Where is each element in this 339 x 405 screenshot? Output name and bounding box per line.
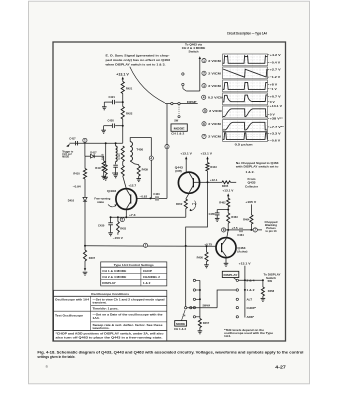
svg-text:−1 V: −1 V — [270, 87, 277, 91]
svg-text:(Active): (Active) — [237, 249, 247, 253]
svg-text:2 V/CM: 2 V/CM — [209, 109, 222, 113]
svg-text:SW464: SW464 — [203, 305, 211, 308]
svg-text:+8 V: +8 V — [270, 82, 278, 86]
svg-text:2 V/CM: 2 V/CM — [208, 122, 221, 126]
svg-text:Switch: Switch — [188, 49, 198, 53]
svg-text:+13.1 V: +13.1 V — [222, 189, 233, 193]
collector rail with C464 — [222, 228, 226, 232]
wire: trigger row — [75, 142, 123, 144]
transistor Q463 — [216, 238, 236, 258]
svg-text:DISPLAY: DISPLAY — [224, 273, 238, 277]
waveform 2 (sawtooth) — [223, 67, 268, 79]
ground — [103, 171, 105, 176]
svg-text:−1.2 V: −1.2 V — [270, 75, 281, 79]
svg-text:0 V: 0 V — [270, 112, 275, 116]
value label +2.7 V — [268, 68, 270, 70]
wire — [122, 94, 124, 107]
schematic frame — [53, 42, 286, 341]
ref 1 — [202, 59, 206, 63]
svg-text:+38 V**: +38 V** — [270, 117, 284, 121]
table: Type 1A4 Control Settings — [101, 262, 167, 286]
resistor R462 — [227, 198, 230, 207]
svg-text:3: 3 — [203, 84, 205, 88]
terminal circles — [182, 73, 184, 75]
value label +13.1 V — [268, 105, 270, 107]
wire DISP — [165, 103, 198, 105]
waveform 4 (spike + decay) — [223, 93, 268, 105]
node circle 1 — [83, 138, 87, 142]
resistor R424 — [122, 162, 124, 166]
svg-text:1: 1 — [84, 139, 86, 143]
value label +0.7 V — [268, 95, 270, 97]
ground — [105, 175, 107, 178]
resistor R458 — [262, 279, 264, 281]
value label 0 V — [268, 101, 270, 103]
svg-text:+4.2 V: +4.2 V — [270, 53, 281, 57]
svg-text:6: 6 — [203, 122, 205, 126]
left contact column + bus — [193, 279, 195, 281]
svg-text:ALT: ALT — [247, 297, 253, 301]
svg-text:with DISPLAY switch set to: with DISPLAY switch set to — [235, 165, 279, 169]
svg-text:4: 4 — [150, 156, 152, 160]
resistor R407 — [83, 250, 86, 261]
resistor R422 — [121, 107, 124, 120]
svg-text:2 V/CM: 2 V/CM — [208, 84, 221, 88]
svg-text:R422: R422 — [126, 112, 133, 116]
svg-text:+105 V: +105 V — [245, 200, 256, 204]
svg-text:+2.7 V: +2.7 V — [270, 67, 281, 71]
svg-text:+0.7 V: +0.7 V — [270, 94, 281, 98]
svg-text:CHOP*: CHOP* — [247, 306, 257, 310]
svg-text:2 V/CM: 2 V/CM — [208, 59, 221, 63]
svg-text:2 V/CM: 2 V/CM — [208, 135, 221, 139]
resistor R418 (left leg) — [105, 143, 107, 165]
svg-text:0.2 V/CM: 0.2 V/CM — [208, 96, 224, 100]
wire 2&4 row — [239, 279, 263, 281]
value label +8 V — [268, 83, 270, 85]
svg-text:Oscilloscope Conditions: Oscilloscope Conditions — [91, 292, 129, 296]
node circle 4 — [149, 156, 153, 160]
svg-text:T450: T450 — [136, 147, 143, 151]
svg-text:Circuit Description — Type 1A4: Circuit Description — Type 1A4 — [227, 31, 268, 35]
svg-text:1 & 2.: 1 & 2. — [246, 170, 255, 174]
waveform 7 (narrow pulses) — [223, 132, 268, 141]
svg-text:DISP: DISP — [187, 100, 197, 104]
svg-text:when DISPLAY switch is set to: when DISPLAY switch is set to 1 & 3. — [104, 62, 165, 66]
waveform 6 (RC square) — [223, 120, 268, 132]
svg-text:oscilloscope used with the Typ: oscilloscope used with the Type — [224, 331, 274, 335]
value label 0 V — [268, 113, 270, 115]
value label +3.3 V — [268, 132, 270, 134]
DISPLAY box — [222, 271, 239, 277]
value label −1.2 V — [268, 76, 270, 78]
waveform 1 (chop pulses) — [223, 54, 268, 66]
ground w/ arrow — [84, 268, 86, 271]
transformer T450 loop — [130, 138, 151, 199]
page sheet — [29, 1, 310, 384]
value label −0.6 V — [268, 139, 270, 141]
svg-text:Switch: Switch — [266, 276, 276, 280]
resistor R457 — [198, 319, 201, 328]
resistor R420 (rotated label) — [121, 146, 124, 162]
svg-text:Fig. 4-18. Schematic diagram: Fig. 4-18. Schematic diagram of Q433, Q4… — [37, 351, 303, 355]
resistor R410 — [83, 169, 86, 180]
svg-text:MODE: MODE — [174, 126, 185, 130]
svg-text:+13.1 V: +13.1 V — [270, 104, 282, 108]
dashed link to MODE switch — [178, 105, 180, 114]
svg-text:2 V/CM: 2 V/CM — [208, 72, 221, 76]
value label −1 V — [268, 88, 270, 90]
ground — [103, 126, 105, 131]
waveform 3 (pulses) — [223, 80, 268, 92]
svg-text:4-27: 4-27 — [275, 365, 286, 370]
value label +38 V** — [268, 118, 270, 120]
right contact column — [236, 289, 238, 291]
resistor R421 — [121, 82, 124, 94]
node circle 7 — [253, 228, 257, 232]
svg-text:R421: R421 — [126, 87, 133, 91]
svg-text:+7.7 V**: +7.7 V** — [270, 125, 285, 129]
wire from base node down to DISPLAY switch — [186, 182, 208, 307]
svg-text:+13.1 V: +13.1 V — [180, 152, 191, 156]
wire to CH2&4 MODE switch (arrow up) — [199, 56, 201, 59]
resistor R417 — [103, 156, 105, 161]
ref 4 — [202, 95, 206, 99]
ref 6 — [202, 122, 206, 126]
svg-text:SW: SW — [268, 280, 273, 283]
svg-text:(Off): (Off) — [175, 169, 182, 173]
svg-text:3: 3 — [166, 145, 168, 149]
value label +4.2 V — [268, 54, 270, 56]
node circle 3 — [165, 145, 169, 149]
capacitor C419 — [113, 164, 118, 166]
ref 5 — [203, 109, 207, 113]
Q463 emitter ground — [225, 258, 227, 264]
svg-text:2: 2 — [203, 72, 205, 76]
node circle 5 — [120, 217, 124, 221]
svg-text:7: 7 — [203, 135, 205, 139]
svg-text:1 & 2: 1 & 2 — [247, 288, 255, 292]
svg-text:4: 4 — [203, 96, 205, 100]
svg-text:2 & 4: 2 & 4 — [247, 279, 255, 283]
leader from note to DISP wire — [130, 67, 165, 103]
svg-text:6: 6 — [223, 228, 225, 232]
resistor R433 — [117, 217, 119, 221]
svg-text:−0.92: −0.92 — [140, 195, 148, 198]
svg-text:+7.5: +7.5 — [232, 227, 239, 230]
svg-text:5: 5 — [204, 109, 206, 113]
wiper row wire — [185, 307, 187, 309]
svg-text:−150 V: −150 V — [113, 236, 123, 240]
resistor R439 — [138, 165, 140, 166]
value label −0.4 V — [268, 62, 270, 64]
svg-text:C417: C417 — [69, 137, 76, 141]
ref 7 — [202, 134, 206, 138]
wire — [122, 119, 124, 143]
svg-text:Collector: Collector — [245, 184, 259, 188]
svg-text:2: 2 — [145, 244, 147, 248]
footnote box CHOP/ADD — [54, 331, 167, 341]
svg-text:−0.6 V: −0.6 V — [270, 138, 281, 142]
base wire B (long) — [85, 245, 216, 248]
svg-text:+13.1 V: +13.1 V — [201, 152, 212, 156]
MODE box 2 — [182, 310, 186, 321]
value label +7.7 V** — [268, 126, 270, 128]
waveform 5 (RC square) — [223, 106, 268, 118]
svg-text:+13.1 V: +13.1 V — [239, 262, 251, 266]
ground — [103, 102, 105, 107]
svg-text:Type 1A4 Control Settings: Type 1A4 Control Settings — [114, 263, 154, 267]
svg-text:−0.4 V: −0.4 V — [270, 61, 281, 65]
ground — [138, 176, 140, 179]
svg-text:1: 1 — [203, 59, 205, 63]
svg-text:+3.3 V: +3.3 V — [270, 131, 281, 135]
svg-text:+13.1 V: +13.1 V — [116, 72, 129, 76]
base wire / capacitor C433 — [137, 197, 155, 199]
svg-text:5: 5 — [121, 218, 123, 222]
svg-text:No Chopped Signal to Q463: No Chopped Signal to Q463 — [236, 161, 279, 165]
MODE switch box — [171, 124, 187, 131]
svg-text:0.5 µs/cm: 0.5 µs/cm — [235, 142, 253, 146]
wire to Q433 collector — [123, 176, 127, 189]
inductor winding (T450 primary) — [115, 143, 117, 146]
emitter rail — [110, 216, 186, 218]
base wire — [193, 181, 207, 183]
svg-text:1A4.: 1A4. — [224, 334, 231, 338]
svg-text:C421: C421 — [109, 95, 116, 99]
svg-text:E. O. Sync Signal (generated i: E. O. Sync Signal (generated in chop- — [106, 54, 170, 58]
capacitor C465 — [217, 209, 228, 211]
svg-text:R433: R433 — [120, 228, 126, 231]
resistor R452 — [186, 193, 189, 199]
capacitor C430 — [110, 217, 112, 222]
svg-text:C420: C420 — [108, 119, 115, 123]
ref 2 — [202, 71, 206, 75]
resistor R463 — [227, 213, 230, 223]
svg-text:CH 1 & 2: CH 1 & 2 — [171, 132, 184, 136]
svg-text:7: 7 — [254, 228, 256, 232]
svg-text:0 V: 0 V — [270, 100, 275, 104]
resistor R465 — [208, 181, 223, 183]
svg-text:Q433: Q433 — [107, 189, 116, 193]
node circle 2 — [143, 243, 147, 247]
svg-text:to pin 13: to pin 13 — [265, 229, 276, 233]
svg-text:ADD*: ADD* — [247, 315, 255, 319]
table: Oscilloscope Conditions — [54, 290, 167, 330]
svg-text:settings given in the table.: settings given in the table. — [37, 355, 75, 359]
svg-text:ped mode only) has no effect o: ped mode only) has no effect on Q463 — [106, 58, 171, 62]
ref 3 — [202, 84, 206, 88]
long wire from DISP down to C433 — [166, 104, 168, 199]
